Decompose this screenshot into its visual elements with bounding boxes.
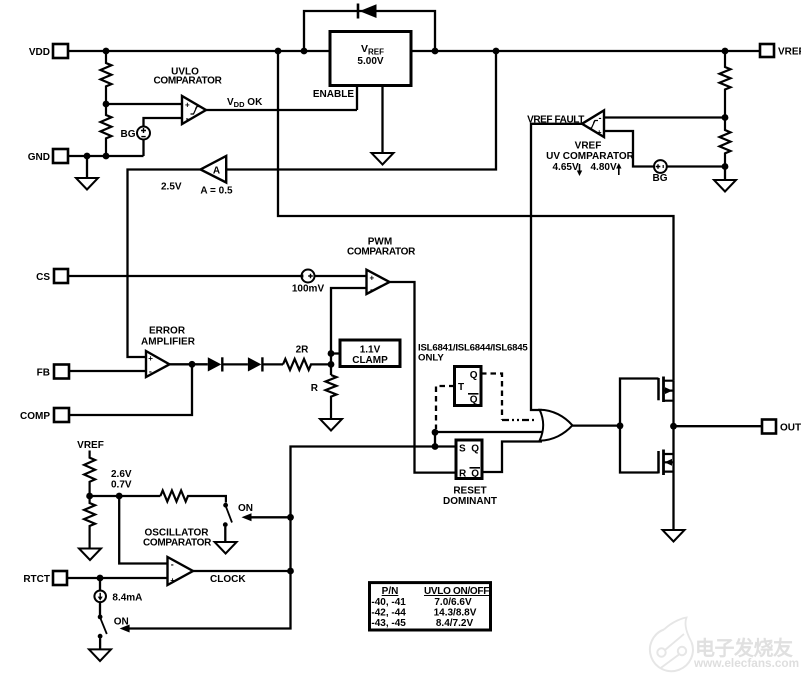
svg-text:VREF: VREF bbox=[77, 440, 104, 451]
wire divider bottom to ground bbox=[724, 167, 726, 181]
wire CLOCK output bbox=[193, 570, 291, 572]
transistor Q1 PMOS high side bbox=[659, 377, 674, 403]
ground VREF divider bbox=[714, 180, 736, 192]
wire ENABLE bbox=[356, 86, 358, 111]
svg-text:DOMINANT: DOMINANT bbox=[443, 496, 497, 507]
table UVLO options bbox=[370, 583, 491, 630]
svg-text:-: - bbox=[171, 560, 174, 570]
ground switch S1 bbox=[215, 542, 237, 554]
svg-text:COMPARATOR: COMPARATOR bbox=[143, 538, 212, 549]
resistor R5 oscillator divider top bbox=[84, 451, 95, 497]
ground oscillator divider bbox=[79, 549, 101, 561]
watermark elecfans logo bbox=[650, 618, 693, 672]
svg-text:14.3/8.8V: 14.3/8.8V bbox=[434, 607, 477, 618]
ground below R bbox=[320, 419, 342, 431]
node OR middle feed bbox=[432, 429, 439, 436]
wire output stage vertical bbox=[672, 381, 674, 530]
svg-text:VDD: VDD bbox=[29, 47, 50, 58]
svg-text:R: R bbox=[311, 383, 319, 394]
svg-text:S: S bbox=[459, 444, 466, 455]
svg-text:VREF: VREF bbox=[575, 141, 602, 152]
svg-text:+: + bbox=[185, 101, 190, 110]
op-amp error amplifier bbox=[146, 351, 170, 377]
node S input bbox=[432, 443, 439, 450]
node VDD divider tap bbox=[103, 48, 110, 55]
resistor R1 UVLO divider top bbox=[101, 51, 112, 104]
svg-text:UV COMPARATOR: UV COMPARATOR bbox=[546, 151, 635, 162]
wire tap to comparator branch bbox=[90, 495, 161, 497]
diode D1 bypass (cathode left) bbox=[358, 4, 377, 19]
wire RTCT input bbox=[67, 577, 168, 579]
svg-text:ONLY: ONLY bbox=[418, 353, 444, 364]
pin pad VDD bbox=[29, 44, 68, 58]
node GND rail divider bbox=[103, 153, 110, 160]
bandgap source BG1 bbox=[121, 118, 183, 156]
node comparator minus branch bbox=[116, 493, 123, 500]
node output bbox=[670, 423, 677, 430]
wire gate drive vertical bbox=[620, 379, 659, 473]
svg-text:7.0/6.6V: 7.0/6.6V bbox=[434, 597, 472, 608]
node VDD feed bbox=[275, 48, 282, 55]
wire VDD rail bbox=[68, 50, 330, 52]
svg-text:VREF: VREF bbox=[778, 47, 801, 58]
svg-text:-43, -45: -43, -45 bbox=[371, 618, 406, 629]
svg-text:-: - bbox=[186, 114, 189, 124]
latch SR reset dominant bbox=[456, 440, 482, 480]
diode D3 bbox=[248, 357, 283, 371]
wire dashed Q output bbox=[481, 374, 502, 420]
pin pad VREF bbox=[760, 44, 801, 58]
svg-text:CS: CS bbox=[36, 272, 50, 283]
svg-text:A: A bbox=[213, 166, 220, 177]
wire BG2 to divider bottom bbox=[667, 165, 725, 167]
svg-text:0.7V: 0.7V bbox=[111, 480, 132, 491]
svg-text:+: + bbox=[597, 128, 602, 137]
ground below VREF box bbox=[372, 153, 394, 165]
svg-text:+: + bbox=[148, 354, 153, 363]
wire ground stub bbox=[86, 156, 88, 178]
pin pad OUT bbox=[762, 420, 801, 434]
wire comparator minus input bbox=[119, 496, 167, 564]
svg-text:UVLO ON/OFF: UVLO ON/OFF bbox=[424, 586, 489, 597]
wire Qbar to OR gate bbox=[482, 442, 542, 473]
svg-text:Q: Q bbox=[471, 469, 479, 480]
pin pad RTCT bbox=[23, 571, 67, 585]
node error amp output bbox=[189, 361, 196, 368]
svg-text:Q: Q bbox=[471, 444, 479, 455]
arrow ON control lower bbox=[120, 625, 130, 633]
svg-text:8.4mA: 8.4mA bbox=[112, 593, 142, 604]
ground GND rail bbox=[76, 178, 98, 190]
resistor R bottom bbox=[326, 375, 337, 419]
node VREF rail divider bbox=[722, 48, 729, 55]
resistor 2R bbox=[283, 359, 331, 370]
node GND rail ground bbox=[84, 153, 91, 160]
bandgap source BG2 bbox=[653, 160, 668, 184]
node VREF divider bottom bbox=[722, 163, 729, 170]
svg-text:ERROR: ERROR bbox=[149, 326, 186, 337]
wire S node to OR feed bbox=[434, 432, 436, 446]
diode D2 bbox=[208, 357, 248, 371]
svg-text:2.5V: 2.5V bbox=[161, 182, 182, 193]
svg-text:2.6V: 2.6V bbox=[111, 469, 132, 480]
svg-text:-42, -44: -42, -44 bbox=[371, 607, 406, 618]
op-amp oscillator comparator bbox=[168, 557, 194, 585]
wire 100mV to PWM comparator bbox=[315, 275, 367, 277]
node ON upper bbox=[287, 514, 294, 521]
svg-text:ON: ON bbox=[238, 503, 253, 514]
svg-text:+: + bbox=[370, 274, 375, 283]
wire A amp output to error amp bbox=[128, 170, 201, 358]
wire divider tap to comparator bbox=[106, 103, 182, 105]
wire CS input bbox=[68, 275, 302, 277]
svg-text:COMPARATOR: COMPARATOR bbox=[153, 76, 222, 87]
ground switch S2 bbox=[89, 649, 111, 661]
svg-text:A = 0.5: A = 0.5 bbox=[200, 186, 233, 197]
resistor R2 UVLO divider bottom bbox=[101, 104, 112, 156]
wire ON control upper bbox=[250, 516, 291, 518]
node VREF divider tap bbox=[722, 114, 729, 121]
svg-text:COMPARATOR: COMPARATOR bbox=[347, 247, 416, 258]
svg-text:8.4/7.2V: 8.4/7.2V bbox=[436, 618, 474, 629]
svg-text:Q: Q bbox=[470, 370, 478, 381]
pin pad FB bbox=[37, 365, 69, 379]
svg-text:Q: Q bbox=[470, 395, 478, 406]
current source 8.4mA bbox=[94, 578, 142, 604]
gate OR 4-input bbox=[540, 410, 573, 441]
svg-text:RESET: RESET bbox=[453, 486, 486, 497]
wire VREF box to ground bbox=[381, 86, 383, 154]
svg-text:4.80V: 4.80V bbox=[591, 162, 617, 173]
wire GND rail bbox=[68, 155, 144, 157]
op-amp VREF UV comparator bbox=[582, 110, 604, 137]
svg-text:VREF FAULT: VREF FAULT bbox=[527, 115, 584, 126]
svg-text:+: + bbox=[170, 576, 175, 585]
wire A amp input from VREF rail bbox=[226, 51, 496, 170]
svg-text:COMP: COMP bbox=[20, 411, 50, 422]
node oscillator divider tap bbox=[86, 493, 93, 500]
wire UV comparator plus input bbox=[604, 131, 654, 167]
wire FB input bbox=[69, 370, 146, 372]
wire diode bypass loop bbox=[304, 11, 435, 51]
node UVLO divider tap bbox=[103, 101, 110, 108]
amplifier A gain 0.5 bbox=[201, 156, 227, 183]
svg-text:FB: FB bbox=[37, 368, 50, 379]
svg-text:BG: BG bbox=[121, 129, 136, 140]
svg-text:P/N: P/N bbox=[382, 586, 399, 597]
svg-text:RTCT: RTCT bbox=[23, 574, 50, 585]
ground output stage bbox=[663, 530, 685, 542]
svg-text:OUT: OUT bbox=[780, 423, 801, 434]
node CLOCK bbox=[287, 568, 294, 575]
svg-text:ENABLE: ENABLE bbox=[313, 89, 354, 100]
node VREF to A amp bbox=[493, 48, 500, 55]
node gate drive bbox=[617, 422, 624, 429]
wire UV comparator minus input bbox=[604, 116, 725, 118]
clamp block 1.1V CLAMP bbox=[331, 340, 400, 367]
source 100mV offset bbox=[292, 270, 325, 295]
resistor R3 VREF divider top bbox=[720, 51, 731, 118]
svg-text:1.1V: 1.1V bbox=[360, 345, 381, 356]
wire OUT bbox=[674, 425, 763, 427]
svg-text:GND: GND bbox=[28, 152, 50, 163]
wire clamp node vertical bbox=[330, 354, 332, 376]
op-amp UVLO comparator bbox=[182, 96, 206, 124]
resistor R4 VREF divider bottom bbox=[720, 118, 731, 167]
wire PWM minus input bbox=[331, 288, 367, 354]
op-amp PWM comparator bbox=[367, 270, 390, 295]
resistor R7 hysteresis bbox=[160, 491, 226, 503]
wire OR middle input bbox=[435, 431, 546, 433]
wire clock to S input bbox=[129, 447, 456, 629]
svg-text:-40, -41: -40, -41 bbox=[371, 597, 406, 608]
wire PWM output to R input bbox=[390, 282, 457, 473]
pin pad CS bbox=[36, 269, 68, 283]
svg-text:www.elecfans.com: www.elecfans.com bbox=[693, 656, 799, 670]
wire VDD OK output bbox=[206, 109, 357, 111]
svg-text:R: R bbox=[459, 469, 467, 480]
svg-text:-: - bbox=[149, 367, 152, 377]
wire error amp output bbox=[170, 363, 208, 365]
svg-text:T: T bbox=[458, 382, 464, 393]
svg-text:2R: 2R bbox=[296, 345, 310, 356]
svg-text:100mV: 100mV bbox=[292, 284, 325, 295]
node RTCT bbox=[97, 575, 104, 582]
node VREF-diode right bbox=[432, 48, 439, 55]
wire COMP input bbox=[69, 364, 192, 415]
pin pad COMP bbox=[20, 408, 69, 422]
transistor Q2 NMOS low side bbox=[659, 450, 674, 476]
switch S1 hysteresis ON bbox=[223, 503, 232, 542]
svg-text:AMPLIFIER: AMPLIFIER bbox=[141, 337, 196, 348]
node clamp upper bbox=[328, 350, 335, 357]
svg-text:5.00V: 5.00V bbox=[357, 56, 383, 67]
svg-text:CLOCK: CLOCK bbox=[210, 574, 246, 585]
node VDD-diode left bbox=[301, 48, 308, 55]
wire dash-dot Q to OR gate bbox=[502, 419, 537, 421]
node clamp lower bbox=[328, 361, 335, 368]
regulator U1 VREF 5.00V bbox=[330, 32, 411, 86]
flip-flop T (toggle) bbox=[455, 367, 482, 406]
pin pad GND bbox=[28, 149, 68, 163]
resistor R6 oscillator divider bottom bbox=[84, 496, 95, 549]
wire VREF FAULT to OR gate bbox=[531, 124, 582, 410]
switch S2 soft start ON bbox=[98, 602, 107, 649]
svg-text:-: - bbox=[599, 113, 602, 123]
svg-text:VDD OK: VDD OK bbox=[227, 97, 263, 109]
svg-text:4.65V: 4.65V bbox=[553, 162, 579, 173]
svg-text:BG: BG bbox=[653, 173, 668, 184]
svg-text:CLAMP: CLAMP bbox=[352, 355, 388, 366]
wire VREF rail bbox=[411, 50, 760, 52]
wire dashed T input bbox=[436, 386, 455, 429]
svg-text:-: - bbox=[370, 285, 373, 295]
wire VDD feed to output stage bbox=[278, 51, 674, 381]
wire OR output bbox=[572, 424, 620, 426]
